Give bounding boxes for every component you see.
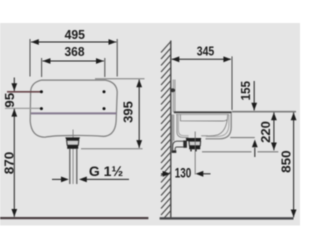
drain body front	[67, 140, 79, 145]
bracket / downpipe near wall	[171, 115, 173, 151]
dim 95 arrow up	[11, 109, 17, 117]
floor line left	[0, 217, 148, 219]
rim underside line	[176, 113, 229, 115]
basin interior bottom right of drain	[201, 135, 208, 137]
inner shell side view	[206, 114, 229, 136]
basin bottom extension line	[230, 137, 255, 139]
dim 130 left tail	[161, 173, 163, 175]
basin far-wall top edge	[180, 114, 227, 121]
drain flange side (dark band)	[186, 138, 201, 141]
wall line	[170, 41, 172, 218]
dim 155 upper shaft	[253, 81, 255, 111]
dim 130 right arrow	[196, 171, 204, 177]
outer shell side view	[206, 113, 232, 139]
dim 155 arrow down	[251, 103, 257, 111]
dim 220 arrow down	[271, 143, 277, 151]
dim 395 arrow down	[136, 140, 142, 148]
rim level extension line	[232, 111, 296, 113]
rim side view	[174, 111, 232, 113]
trap coupling nut	[183, 140, 187, 147]
drain lower dark band side	[189, 146, 200, 150]
dim 220 arrow up	[271, 113, 277, 121]
dim 495 arrow left	[31, 39, 39, 45]
svg-text:155: 155	[238, 81, 253, 101]
dim 368 extension line right	[104, 58, 106, 77]
dim 95 upper shaft	[13, 78, 15, 92]
sink outline front view	[30, 80, 117, 137]
drain body side	[189, 141, 201, 146]
dim 345 line	[172, 58, 231, 60]
dim 495 line	[31, 41, 116, 43]
dim G 1.5 left arrow	[52, 178, 62, 180]
drain lower dark band front	[67, 145, 78, 149]
dim 850 line	[293, 113, 295, 218]
dim 850 arrow down	[291, 210, 297, 218]
drain pipe lines front	[69, 149, 71, 184]
dim 495 extension line right	[116, 39, 118, 77]
svg-text:850: 850	[279, 150, 294, 173]
dim 368 line	[43, 60, 104, 62]
svg-text:395: 395	[121, 101, 136, 123]
basin interior back wall	[177, 114, 189, 137]
dim 220 line	[273, 113, 275, 151]
drain pipe stub side	[190, 149, 192, 151]
basin interior front curve	[208, 114, 228, 136]
svg-text:368: 368	[65, 44, 85, 59]
trap foot	[172, 150, 177, 153]
mounting hole bottom-left	[40, 107, 43, 110]
dim 395 top extension	[95, 78, 145, 80]
red mounting-hole line	[7, 91, 42, 93]
dim 395 arrow up	[136, 80, 142, 88]
purple overflow line	[31, 112, 117, 114]
drain centerline front	[72, 130, 74, 185]
mounting hole top-left	[40, 90, 43, 93]
dim G 1.5 right arrow with tail under text	[86, 178, 129, 180]
dim 870 line	[13, 109, 15, 217]
mounting hole bottom-right	[103, 107, 106, 110]
dim 130 left arrow	[163, 171, 171, 177]
dim 395 bottom extension	[81, 148, 143, 150]
svg-text:870: 870	[1, 152, 16, 175]
dim 495 arrow right	[109, 39, 117, 45]
dim 345 extension line right	[231, 56, 233, 110]
dim 395 line	[138, 80, 140, 148]
dim 345 arrow left	[172, 56, 180, 62]
dim 345 arrow right	[223, 56, 231, 62]
dim 368 arrow right	[96, 58, 104, 64]
drain flange front (dark top band)	[65, 137, 80, 140]
dim 155 lower arrow up	[252, 140, 258, 148]
svg-text:495: 495	[65, 27, 85, 42]
gray drawing panel	[0, 23, 300, 226]
gray lower-hole line	[5, 107, 42, 109]
drain bottom extension line	[202, 151, 252, 153]
trap elbow	[173, 141, 177, 150]
mounting bolt side view	[170, 88, 175, 92]
svg-text:130: 130	[175, 166, 192, 181]
dim 850 arrow up	[291, 113, 297, 121]
svg-text:G 1½: G 1½	[89, 163, 124, 179]
svg-text:95: 95	[2, 93, 17, 108]
trap horizontal pipe	[177, 140, 186, 142]
sink rear gap lines above rim	[172, 80, 174, 113]
dim 155 lower shaft	[254, 148, 256, 157]
floor line right	[160, 217, 294, 219]
dim 495 extension line left	[29, 39, 31, 77]
dim 95 arrow down	[11, 83, 17, 91]
mounting hole top-right	[103, 90, 106, 93]
svg-text:220: 220	[258, 121, 273, 143]
dim 368 extension line left	[41, 58, 43, 77]
svg-text:345: 345	[197, 43, 215, 58]
dim 130 right tail	[203, 173, 211, 175]
dim 368 arrow left	[43, 58, 51, 64]
drain centerline side	[194, 132, 196, 175]
dim 870 arrow down at floor	[11, 209, 17, 217]
wall hatching	[161, 42, 171, 218]
